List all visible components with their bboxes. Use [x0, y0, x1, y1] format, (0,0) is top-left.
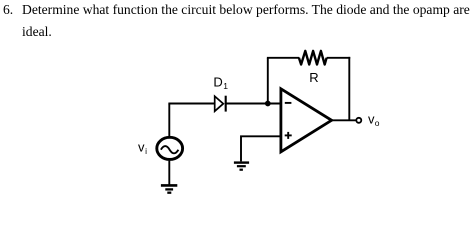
op-amp plus sign: [285, 132, 292, 139]
ground (non-inverting input): [234, 163, 249, 170]
question number 6: [3, 2, 13, 18]
op-amp U1: [281, 89, 332, 152]
question text line 2: [22, 24, 52, 40]
svg-text:vi: vi: [138, 140, 147, 156]
AC voltage source vi: [157, 137, 183, 159]
wire: non-inverting input to ground drop: [241, 136, 281, 161]
svg-text:vo: vo: [368, 112, 380, 128]
junction node (inverting input): [265, 101, 271, 107]
wire: feedback top left segment: [267, 57, 299, 59]
diode D1: [215, 96, 226, 112]
label R: [309, 70, 318, 85]
wire: diode cathode to op-amp inverting input: [226, 103, 281, 105]
wire: feedback right vertical down to output: [348, 57, 350, 120]
wire: feedback left vertical: [267, 58, 269, 104]
wire: source bottom to ground: [168, 161, 170, 185]
wire: horizontal from source to diode anode: [168, 103, 214, 105]
wire: feedback top right segment: [327, 57, 351, 59]
output terminal vo: [356, 118, 361, 123]
label vi: [138, 140, 147, 156]
resistor R: [299, 51, 327, 65]
svg-text:R: R: [309, 70, 318, 85]
wire: source top to horizontal run: [168, 104, 170, 138]
svg-text:D1: D1: [213, 75, 228, 91]
question text line 1: [22, 2, 470, 18]
label vo: [368, 112, 380, 128]
wire: op-amp output to terminal: [331, 119, 356, 121]
op-amp minus sign: [285, 102, 292, 104]
label D1: [213, 75, 228, 91]
ground (source): [161, 185, 177, 192]
